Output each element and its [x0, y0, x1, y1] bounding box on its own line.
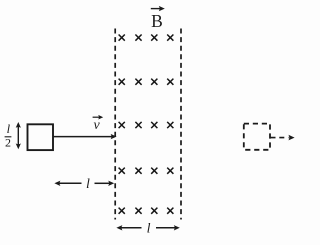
svg-text:l: l — [147, 222, 151, 237]
svg-text:v: v — [93, 118, 100, 133]
field boundary right dashed line — [180, 29, 182, 220]
field boundary left dashed line — [114, 29, 116, 220]
final position dashed square — [244, 124, 270, 150]
field symbols row 5 — [119, 208, 174, 214]
field width dimension l (bottom) — [116, 222, 179, 237]
field symbols row 3 — [119, 122, 174, 128]
block height double arrow — [16, 122, 21, 149]
exit displacement dashed arrow — [271, 135, 295, 141]
field symbols row 1 — [119, 35, 174, 41]
svg-text:l: l — [7, 122, 11, 136]
field symbols row 4 — [119, 168, 174, 174]
label l/2 fraction — [5, 122, 12, 149]
field symbols row 2 — [119, 79, 174, 85]
velocity arrow — [54, 134, 117, 139]
svg-text:B: B — [151, 11, 163, 31]
conducting square block — [28, 124, 54, 150]
label B with vector arrow — [151, 6, 165, 31]
gap dimension l (left) — [54, 177, 114, 192]
svg-text:2: 2 — [5, 135, 11, 149]
label v with vector arrow — [93, 115, 104, 133]
svg-text:l: l — [86, 177, 90, 192]
